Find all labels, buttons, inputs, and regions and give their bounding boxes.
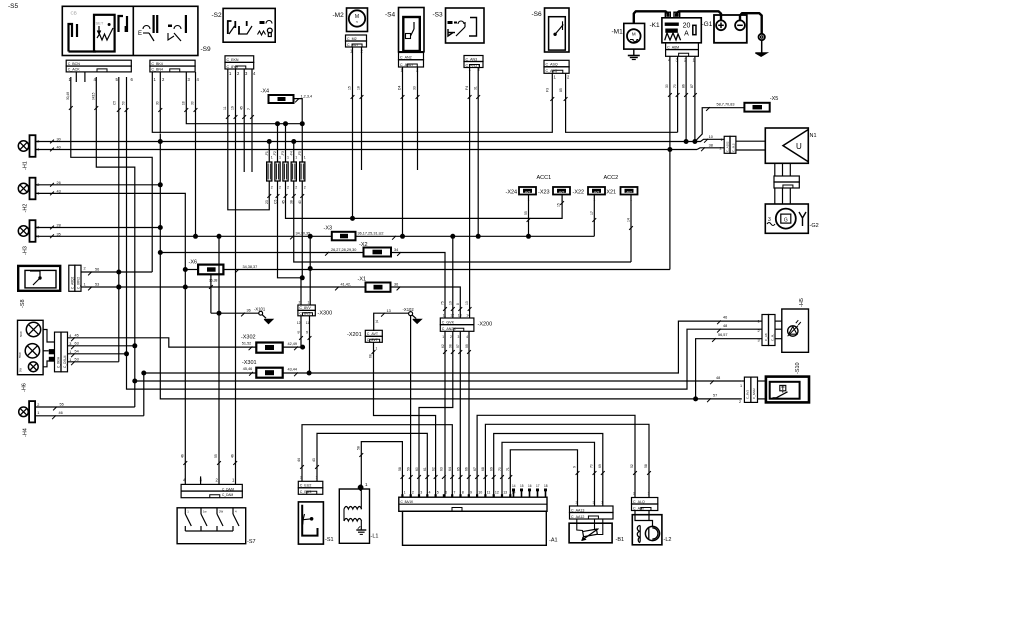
svg-text:34,70,35: 34,70,35 xyxy=(296,231,311,235)
wire H6-45 to X302 xyxy=(68,338,257,347)
svg-text:4: 4 xyxy=(466,335,468,339)
motor M2 box xyxy=(347,8,368,32)
svg-text:15: 15 xyxy=(557,203,561,207)
ground point X101 xyxy=(211,312,259,314)
indicator lamp H1 xyxy=(18,141,28,151)
horn H5 box xyxy=(782,309,809,352)
fuse F3 wire up to y124 xyxy=(285,124,287,162)
svg-text:C_8RV2: C_8RV2 xyxy=(76,277,80,289)
svg-text:ACC2: ACC2 xyxy=(604,175,619,181)
svg-text:ACC1: ACC1 xyxy=(537,175,552,181)
svg-text:-H3: -H3 xyxy=(23,246,29,255)
wire H4-55 y407 xyxy=(36,406,135,408)
accessory connector X21 xyxy=(621,187,638,195)
svg-text:10: 10 xyxy=(709,135,713,139)
svg-text:-X201: -X201 xyxy=(347,332,362,338)
svg-text:30: 30 xyxy=(156,101,160,105)
svg-text:C_AN2: C_AN2 xyxy=(400,56,412,60)
S8 internal switch symbol xyxy=(38,276,41,279)
S7 internal switch contacts xyxy=(184,508,186,514)
svg-text:2: 2 xyxy=(758,329,760,333)
svg-text:-S9: -S9 xyxy=(201,46,212,53)
svg-text:2W: 2W xyxy=(219,510,224,514)
svg-text:C_A6M: C_A6M xyxy=(667,45,679,49)
wire H2-43 y193.4 to S7 pin4 xyxy=(36,193,186,485)
inline connector X302 xyxy=(256,343,282,353)
S9 pin 2 wire down x160.3 xyxy=(159,72,161,133)
svg-text:66: 66 xyxy=(465,467,469,471)
svg-text:C_M2: C_M2 xyxy=(347,37,357,41)
svg-text:36: 36 xyxy=(394,283,398,287)
connector X201 xyxy=(365,330,382,336)
connector C_EU under S1 xyxy=(298,481,323,488)
svg-text:C_8V2: C_8V2 xyxy=(746,389,750,399)
svg-text:2: 2 xyxy=(271,186,273,190)
svg-text:2: 2 xyxy=(739,400,741,404)
svg-text:E: E xyxy=(138,31,142,37)
svg-text:C_8YH: C_8YH xyxy=(227,65,239,69)
A1 pin6 wire to X200 pin1 xyxy=(444,331,446,497)
svg-text:11: 11 xyxy=(443,314,447,318)
svg-text:-S10: -S10 xyxy=(795,362,801,374)
svg-text:4: 4 xyxy=(429,491,431,495)
svg-text:3: 3 xyxy=(758,339,760,343)
svg-text:C_6L2: C_6L2 xyxy=(732,143,736,152)
inline connector X301 xyxy=(256,368,282,378)
svg-text:48: 48 xyxy=(716,376,720,380)
svg-text:17: 17 xyxy=(590,211,594,215)
svg-text:-X101: -X101 xyxy=(254,307,266,312)
connector between N1 and G2 xyxy=(774,176,799,182)
ECU A1 connector strip xyxy=(399,497,547,511)
battery ground eyelet and ground symbol xyxy=(759,34,765,40)
svg-text:-H5: -H5 xyxy=(799,298,805,307)
connector C_AA1 under B1 wires xyxy=(570,506,614,513)
X300 bottom pin11 wire to X301 xyxy=(309,316,311,373)
svg-text:52: 52 xyxy=(630,464,634,468)
svg-text:1: 1 xyxy=(308,300,310,304)
A1 pin14 wire to B1 pin2 xyxy=(510,450,577,506)
svg-text:C_ASQ: C_ASQ xyxy=(546,63,558,67)
svg-text:42: 42 xyxy=(296,330,300,334)
svg-text:46: 46 xyxy=(181,454,185,458)
connector C_A6M under K1 xyxy=(666,43,699,50)
voltage regulator N1 box xyxy=(765,128,808,163)
fuse F1 wire up to y141.5 xyxy=(268,142,270,163)
svg-text:5: 5 xyxy=(437,491,439,495)
svg-text:43,44: 43,44 xyxy=(288,367,298,371)
switch S2 box xyxy=(223,8,275,42)
X302 right wire 42,49 xyxy=(283,346,303,348)
svg-text:C_AVT: C_AVT xyxy=(623,190,633,194)
svg-text:C_AVT: C_AVT xyxy=(590,190,600,194)
inline connector X3 xyxy=(332,232,356,241)
accessory connector X23 xyxy=(553,187,570,195)
svg-text:-B1: -B1 xyxy=(616,537,625,543)
svg-text:68: 68 xyxy=(481,467,485,471)
switch S3 box xyxy=(446,8,485,43)
svg-text:-F2: -F2 xyxy=(273,151,277,156)
svg-text:-F5: -F5 xyxy=(298,151,302,156)
svg-text:D4: D4 xyxy=(398,86,402,90)
svg-text:97: 97 xyxy=(456,344,460,348)
svg-text:31: 31 xyxy=(473,86,477,90)
svg-text:2: 2 xyxy=(84,267,86,271)
fuse F2 xyxy=(275,162,280,181)
svg-text:-S6: -S6 xyxy=(532,11,543,18)
svg-text:C_EKN: C_EKN xyxy=(227,58,239,62)
svg-text:10: 10 xyxy=(448,301,452,305)
svg-text:13: 13 xyxy=(387,309,391,313)
connector X200 xyxy=(440,318,474,325)
svg-text:23: 23 xyxy=(265,200,269,204)
X24 pin wire down to bus xyxy=(528,195,530,237)
svg-text:C_AVT: C_AVT xyxy=(555,190,565,194)
ECU A1 body box xyxy=(403,511,547,545)
battery G1 box xyxy=(714,15,747,43)
fuse F5 wire down to F2 jog xyxy=(301,181,303,278)
svg-text:55W: 55W xyxy=(18,352,22,358)
fuse F2 wire up to y124 xyxy=(277,124,279,162)
svg-text:1: 1 xyxy=(316,476,318,480)
X22 pin wire down to bus xyxy=(593,195,595,237)
starter relay K1 box xyxy=(662,18,701,43)
M1 ground symbol xyxy=(633,49,635,55)
svg-text:46: 46 xyxy=(723,316,727,320)
svg-text:C_EU2: C_EU2 xyxy=(300,484,312,488)
svg-text:3: 3 xyxy=(458,335,460,339)
svg-text:71: 71 xyxy=(506,467,510,471)
svg-text:53: 53 xyxy=(122,101,126,105)
svg-text:-K1: -K1 xyxy=(650,22,661,29)
connector C_BK4 / C_BN4 under S9 xyxy=(150,60,195,66)
L1 wire 58 up to A1 pin1 xyxy=(361,442,402,498)
indicator lamp H4 xyxy=(19,407,29,417)
accessory connector X22 xyxy=(588,187,605,195)
X5 wire with label 58,7,70,83 xyxy=(695,108,745,142)
svg-text:-X300: -X300 xyxy=(318,311,333,317)
svg-text:45: 45 xyxy=(281,200,285,204)
svg-text:U: U xyxy=(796,142,802,151)
G1 positive terminal xyxy=(716,20,726,30)
svg-text:C_AN3: C_AN3 xyxy=(466,57,478,61)
svg-text:58,7,70,83: 58,7,70,83 xyxy=(717,103,735,107)
inline connector X6 xyxy=(198,265,223,275)
svg-text:67: 67 xyxy=(473,467,477,471)
N1 to G2 wires lower xyxy=(774,188,776,204)
svg-text:44: 44 xyxy=(305,330,309,334)
inline connector X1 xyxy=(366,283,391,292)
X21 pin wire down to y262 xyxy=(630,195,632,263)
connector under S3 xyxy=(464,56,483,62)
svg-text:36,38: 36,38 xyxy=(209,278,218,282)
svg-text:55: 55 xyxy=(214,454,218,458)
S3 pin 2 wire down to bus y236.3 xyxy=(477,68,479,237)
svg-text:40: 40 xyxy=(298,200,302,204)
K1 pin 2 wire to y141.5 xyxy=(685,56,687,141)
svg-text:C_M2T: C_M2T xyxy=(347,43,360,47)
wire H6-54 to H5 pin2 via y389 xyxy=(68,329,763,389)
svg-text:14: 14 xyxy=(627,218,631,222)
svg-text:1: 1 xyxy=(648,492,650,496)
svg-text:C_AVT: C_AVT xyxy=(367,332,379,336)
H6 connector strips xyxy=(55,332,62,372)
connector C_DAM under S7 wires xyxy=(181,484,242,491)
svg-text:2: 2 xyxy=(720,147,722,151)
switch S10 box xyxy=(766,377,809,403)
svg-text:9: 9 xyxy=(470,491,472,495)
svg-text:50W: 50W xyxy=(19,331,23,337)
svg-text:13: 13 xyxy=(503,491,507,495)
svg-text:30,48: 30,48 xyxy=(66,92,70,100)
svg-text:-S5: -S5 xyxy=(8,3,19,10)
A1 pin13 wire to B1 pin3 xyxy=(502,442,595,506)
svg-text:1,2,3,4: 1,2,3,4 xyxy=(301,95,313,99)
svg-text:-S4: -S4 xyxy=(385,12,396,19)
svg-text:42,49: 42,49 xyxy=(288,342,298,346)
accessory connector X24 xyxy=(519,187,536,195)
wire H3-35 / X3 bus y236.3 xyxy=(36,235,332,237)
svg-text:-F4: -F4 xyxy=(289,151,293,156)
bus wire y124 fuse feeds from S9 pin3 xyxy=(186,72,302,124)
wires connector to N1 xyxy=(736,140,765,142)
svg-text:CB: CB xyxy=(71,11,77,16)
A1 pin9 wire to X200 pin4 xyxy=(468,331,470,497)
wire X2-34 to X200 pin11 xyxy=(391,253,445,319)
svg-text:C_8VV: C_8VV xyxy=(299,306,311,310)
svg-text:C_ALQ: C_ALQ xyxy=(546,69,558,73)
X301 right wire 43,44 to H5 pin1 xyxy=(283,321,762,373)
ignition coil L1 box xyxy=(339,489,369,543)
connector C_ALQ under S6 xyxy=(544,60,569,67)
connector C_BCN / C_ACK under S5 xyxy=(66,60,131,66)
A1 right side stub pins 14-18 xyxy=(513,491,515,498)
svg-text:18: 18 xyxy=(544,484,548,488)
svg-text:63: 63 xyxy=(75,341,79,345)
switch S1 box xyxy=(298,502,323,544)
S7 pin1 wire up to S2 pin2 xyxy=(235,69,237,484)
svg-text:26,27,28,29,30: 26,27,28,29,30 xyxy=(331,248,356,252)
wire S2 pin1 to fuse F1 y209.8 xyxy=(228,69,269,210)
svg-text:60: 60 xyxy=(415,467,419,471)
svg-text:86: 86 xyxy=(681,84,685,88)
wire S8-53 / X1 bus y287 xyxy=(85,286,366,288)
svg-text:56,57: 56,57 xyxy=(718,333,728,337)
S6 inner housing and switch xyxy=(549,17,566,50)
svg-text:30: 30 xyxy=(665,84,669,88)
svg-text:9K15: 9K15 xyxy=(92,92,96,100)
svg-text:2: 2 xyxy=(287,186,289,190)
wire H1-30 bus y141 xyxy=(36,141,695,143)
svg-text:11: 11 xyxy=(487,491,491,495)
svg-text:16: 16 xyxy=(528,484,532,488)
svg-text:46: 46 xyxy=(59,411,63,415)
svg-text:58: 58 xyxy=(644,464,648,468)
svg-text:-X21: -X21 xyxy=(605,190,617,196)
svg-text:-X6: -X6 xyxy=(189,260,198,266)
svg-text:68: 68 xyxy=(369,354,373,358)
svg-text:55: 55 xyxy=(524,211,528,215)
svg-text:61: 61 xyxy=(423,467,427,471)
svg-text:C_AN2K: C_AN2K xyxy=(442,327,457,331)
S10 internal switch xyxy=(780,385,786,390)
svg-text:2: 2 xyxy=(279,186,281,190)
bus wire y132.3 from S6 pin2 to K1 pin3 xyxy=(566,74,678,133)
svg-text:2: 2 xyxy=(304,186,306,190)
svg-text:C_A50: C_A50 xyxy=(633,506,644,510)
generator G2 box xyxy=(765,204,808,233)
svg-text:C_EU3: C_EU3 xyxy=(300,490,312,494)
svg-text:41,42,: 41,42, xyxy=(341,283,352,287)
svg-text:45: 45 xyxy=(75,333,79,337)
svg-text:C_8A02: C_8A02 xyxy=(752,388,756,399)
svg-text:1: 1 xyxy=(37,411,39,415)
svg-text:-X24: -X24 xyxy=(506,190,518,196)
svg-text:2: 2 xyxy=(300,476,302,480)
svg-text:53: 53 xyxy=(75,357,79,361)
G1 negative terminal xyxy=(735,20,745,30)
S1 wires up to A1 xyxy=(302,425,452,498)
svg-text:15: 15 xyxy=(348,86,352,90)
svg-text:-L1: -L1 xyxy=(371,534,379,540)
fuse F4 xyxy=(291,162,296,181)
fuse F4 wire up to y141.5 xyxy=(293,142,295,163)
wire X1-36 to X200 pin13 xyxy=(391,287,461,318)
svg-text:3: 3 xyxy=(593,501,595,505)
L1 top junction xyxy=(358,485,364,491)
wire X301 bus y373 xyxy=(144,373,256,416)
wire x118.8 S5 pin5 down to H6-53 xyxy=(118,77,120,362)
svg-text:C_DA/M: C_DA/M xyxy=(222,488,234,492)
S8 wire 53 to X1 line xyxy=(81,286,85,288)
svg-text:45,46: 45,46 xyxy=(243,367,253,371)
svg-text:C_A102: C_A102 xyxy=(726,141,730,152)
X300 bottom pin12 wire to X302 xyxy=(300,316,302,347)
svg-text:-X4: -X4 xyxy=(261,89,270,95)
svg-text:C_ACK: C_ACK xyxy=(68,68,81,72)
svg-text:2: 2 xyxy=(412,491,414,495)
svg-text:2: 2 xyxy=(295,186,297,190)
svg-text:C5: C5 xyxy=(273,200,277,204)
svg-text:-S8: -S8 xyxy=(20,299,26,308)
svg-text:C_A8: C_A8 xyxy=(764,333,768,341)
svg-text:48: 48 xyxy=(723,324,727,328)
X300 top pin2 wire to fuse F2 xyxy=(278,181,302,305)
lamp unit H6 box xyxy=(18,320,44,374)
S4 pin 1 wire down to bus y236.3 xyxy=(402,67,404,236)
svg-text:1: 1 xyxy=(601,501,603,505)
H6 lamp low beam xyxy=(25,344,39,358)
K1 pin 1 wire to y141.5 xyxy=(694,56,696,141)
svg-text:C_8A/1K: C_8A/1K xyxy=(401,500,415,504)
M2 pin 2 stub wire xyxy=(361,47,363,170)
svg-text:-G1: -G1 xyxy=(702,21,713,28)
bus wire y132.3 ignition feed from S9 pin1 to S6 pin1 xyxy=(152,72,552,132)
inline connector X5 xyxy=(744,103,769,112)
svg-text:C_BN4: C_BN4 xyxy=(151,68,163,72)
S4 inner housing xyxy=(403,17,420,51)
svg-text:-H4: -H4 xyxy=(23,428,29,437)
wire X6 bus y269.5 xyxy=(185,269,198,271)
wire accessory bus y262 from fuse F4 xyxy=(294,181,631,262)
inline connector X4 xyxy=(269,95,294,103)
X4 output wire with label 1,2,3,4 xyxy=(294,99,303,124)
svg-text:-S3: -S3 xyxy=(433,12,444,19)
svg-text:17: 17 xyxy=(536,484,540,488)
svg-text:C_GVK: C_GVK xyxy=(442,320,455,324)
svg-text:-F1: -F1 xyxy=(265,151,269,156)
switch block S7 box xyxy=(177,508,246,544)
svg-text:-X2: -X2 xyxy=(359,242,368,248)
wire H3-28 y227.5 xyxy=(36,227,161,229)
svg-text:-X302: -X302 xyxy=(241,335,256,341)
K1 pin 4 wire down to y149.5 and X6 bus xyxy=(669,56,671,269)
fuse F5 xyxy=(300,162,305,181)
A1 pin12 wire to B1 pin1 xyxy=(494,434,603,507)
svg-text:-F3: -F3 xyxy=(281,151,285,156)
svg-text:-X102: -X102 xyxy=(403,307,415,312)
svg-text:62: 62 xyxy=(431,467,435,471)
svg-text:1: 1 xyxy=(721,138,723,142)
wire S9 pin4 down to bus y236.3 xyxy=(195,72,197,236)
fuse F5 wire up to y124 xyxy=(301,124,303,162)
wire y398 main ground bus to S10 pin2 xyxy=(160,134,742,399)
wire y381 to S10 pin1 xyxy=(135,380,742,382)
wire H1-40 bus y149.5 xyxy=(36,149,698,151)
connector C_EKN / C_8YH under S2 xyxy=(225,56,254,63)
svg-text:63: 63 xyxy=(440,467,444,471)
indicator lamp H3 xyxy=(18,226,28,236)
svg-text:33: 33 xyxy=(191,101,195,105)
H6 lamp position xyxy=(28,362,38,372)
svg-text:8: 8 xyxy=(456,303,460,305)
svg-text:62: 62 xyxy=(441,344,445,348)
svg-text:-X22: -X22 xyxy=(573,190,585,196)
switch S4 box xyxy=(399,8,425,52)
M2 pin 1 wire down to y218.4 xyxy=(352,47,354,218)
connector under S4 xyxy=(399,53,424,60)
S5 pin 6 wire down (x126.5) xyxy=(126,77,128,354)
fuse F3 xyxy=(283,162,288,181)
svg-text:12: 12 xyxy=(297,321,301,325)
svg-text:1: 1 xyxy=(84,282,86,286)
S10 connector strips xyxy=(744,377,751,402)
svg-text:-H2: -H2 xyxy=(23,204,29,213)
S5 pin 1 wire jog to x152.2 down to S8 wire 56 xyxy=(71,77,152,272)
svg-text:99: 99 xyxy=(465,344,469,348)
svg-text:56: 56 xyxy=(95,268,99,272)
svg-text:38: 38 xyxy=(709,144,713,148)
svg-text:20: 20 xyxy=(683,23,691,30)
B1 thermistor symbol xyxy=(583,529,598,537)
svg-text:70: 70 xyxy=(673,84,677,88)
svg-text:C_A8Q2: C_A8Q2 xyxy=(70,277,74,289)
svg-text:3: 3 xyxy=(420,491,422,495)
svg-text:C_AA13: C_AA13 xyxy=(571,508,584,512)
A1 pin10 wire to L2 pin2 xyxy=(477,415,635,497)
X300 top pin1 wire to bus junctions xyxy=(309,236,311,305)
svg-text:53: 53 xyxy=(95,283,99,287)
G2 generator symbol xyxy=(776,209,796,229)
svg-text:58: 58 xyxy=(357,446,361,450)
svg-text:51,52: 51,52 xyxy=(242,341,252,345)
wire X2 bus y252.5 xyxy=(160,252,363,254)
svg-text:14: 14 xyxy=(512,484,516,488)
svg-text:69: 69 xyxy=(490,467,494,471)
svg-text:C_8V3: C_8V3 xyxy=(299,312,310,316)
svg-text:11: 11 xyxy=(223,106,227,110)
svg-text:38: 38 xyxy=(290,200,294,204)
